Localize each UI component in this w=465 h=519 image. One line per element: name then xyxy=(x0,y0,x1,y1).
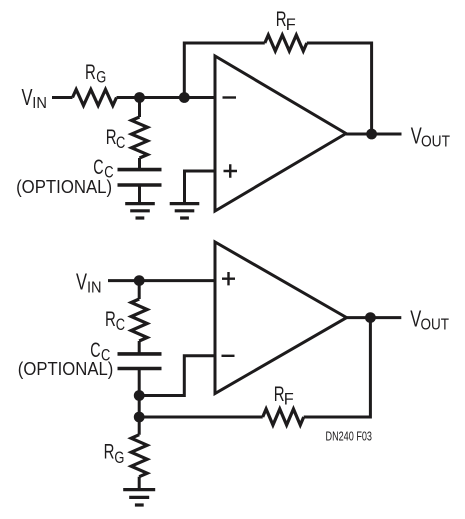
ground at plus input (top circuit) xyxy=(170,204,200,218)
wire node to minus input riser (bottom circuit) xyxy=(139,356,215,396)
resistor RC (bottom circuit) xyxy=(131,299,147,341)
op-amp U1 minus sign xyxy=(223,96,237,98)
wire feedback left vertical (top circuit) xyxy=(184,43,264,98)
svg-text:C: C xyxy=(93,156,103,179)
ground under RG (bottom circuit) xyxy=(123,490,155,505)
op-amp U2 minus sign xyxy=(222,355,235,357)
svg-text:R: R xyxy=(105,308,116,331)
op-amp U1 plus sign xyxy=(224,164,238,178)
svg-text:F: F xyxy=(286,15,296,34)
svg-text:(OPTIONAL): (OPTIONAL) xyxy=(18,359,114,379)
wire op-amp output to VOUT (top circuit) xyxy=(346,133,402,136)
resistor RC (top circuit) xyxy=(132,117,148,158)
wire RG to ground (bottom circuit) xyxy=(138,477,141,489)
wire RF up to output (bottom circuit) xyxy=(304,318,371,417)
svg-text:IN: IN xyxy=(87,280,102,297)
wire node A down to RC (top circuit) xyxy=(138,98,141,118)
resistor RG (bottom circuit) xyxy=(131,435,147,477)
svg-text:OUT: OUT xyxy=(421,317,450,334)
svg-text:F: F xyxy=(284,389,294,408)
wire CC down through nodes to RG (bottom circuit) xyxy=(138,369,141,435)
wire VIN lead (top circuit) xyxy=(52,96,73,99)
resistor RG (top circuit) xyxy=(73,90,117,106)
capacitor CC bottom plate (bottom circuit) xyxy=(118,367,162,371)
wire RG to op-amp minus input xyxy=(117,96,216,99)
node dot at minus feedback junction (top circuit) xyxy=(179,92,190,103)
svg-text:R: R xyxy=(85,61,96,84)
capacitor CC bottom plate (top circuit) xyxy=(118,183,162,187)
resistor RF (bottom circuit) xyxy=(263,409,304,425)
wire RC to CC (bottom circuit) xyxy=(138,341,141,354)
wire feedback node to RF (bottom circuit) xyxy=(139,416,263,419)
svg-text:IN: IN xyxy=(32,95,47,112)
svg-text:DN240 F03: DN240 F03 xyxy=(326,430,373,444)
wire VIN lead (bottom circuit) xyxy=(108,279,215,282)
svg-text:V: V xyxy=(22,84,33,110)
op-amp U2 (bottom circuit) xyxy=(215,242,347,394)
op-amp U2 plus sign xyxy=(222,272,235,285)
wire op-amp output to VOUT (bottom circuit) xyxy=(347,316,402,319)
svg-text:G: G xyxy=(114,448,124,467)
capacitor CC top plate (bottom circuit) xyxy=(118,352,162,356)
svg-text:R: R xyxy=(106,126,117,149)
op-amp U1 (top circuit) xyxy=(215,56,346,211)
node dot VIN (bottom circuit) xyxy=(134,275,145,286)
svg-text:R: R xyxy=(104,441,115,464)
node dot feedback (bottom circuit) xyxy=(134,412,145,423)
wire feedback right vertical to output (top circuit) xyxy=(307,43,372,134)
wire node down to RC (bottom circuit) xyxy=(138,281,141,299)
svg-text:G: G xyxy=(96,68,106,87)
svg-text:C: C xyxy=(116,315,125,334)
svg-text:OUT: OUT xyxy=(421,134,450,151)
wire RC to CC (top circuit) xyxy=(138,158,141,170)
svg-text:C: C xyxy=(116,133,125,152)
node dot below CC (bottom circuit) xyxy=(134,390,145,401)
svg-text:(OPTIONAL): (OPTIONAL) xyxy=(16,177,112,197)
svg-text:V: V xyxy=(76,269,87,295)
node dot at output (top circuit) xyxy=(366,129,377,140)
ground under CC (top circuit) xyxy=(125,204,155,218)
node dot at output (bottom circuit) xyxy=(365,312,376,323)
wire plus input to ground (top circuit) xyxy=(185,171,216,202)
capacitor CC top plate (top circuit) xyxy=(118,168,162,172)
node dot after RG (top circuit) xyxy=(134,92,145,103)
wire CC to ground (top circuit) xyxy=(138,185,141,202)
resistor RF (top circuit) xyxy=(265,35,307,51)
